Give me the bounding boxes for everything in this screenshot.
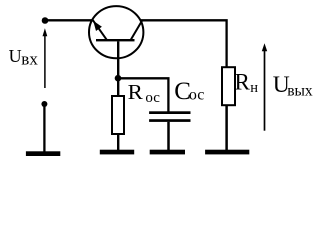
svg-text:вых: вых	[287, 82, 313, 99]
resistor Roc	[112, 96, 124, 134]
label Roc	[128, 80, 161, 106]
ground Rn	[205, 150, 249, 155]
wire Roc to ground	[117, 134, 119, 151]
wire input top-left	[45, 19, 92, 21]
label Coc	[174, 78, 204, 105]
wire junction to capacitor	[118, 78, 168, 111]
resistor Rn load	[222, 67, 235, 105]
wire junction to resistor Roc	[117, 78, 119, 95]
node input lower dot	[41, 101, 47, 107]
arrow Uvyx output voltage	[262, 43, 267, 131]
svg-text:R: R	[128, 80, 143, 104]
node input top dot	[42, 17, 49, 24]
svg-text:ос: ос	[145, 90, 160, 106]
ground input	[26, 151, 60, 156]
label Uvyx	[273, 72, 313, 99]
svg-text:ос: ос	[189, 86, 205, 103]
svg-text:R: R	[235, 69, 251, 94]
svg-text:н: н	[250, 80, 258, 96]
wire Coc to ground	[167, 122, 170, 151]
label Uvx	[9, 46, 39, 69]
transistor VT1	[89, 6, 143, 78]
arrow Uvx input voltage	[43, 28, 48, 88]
svg-text:вх: вх	[21, 50, 38, 69]
wire collector to load	[140, 20, 226, 66]
label Rn	[235, 69, 259, 96]
wire Rn to ground	[225, 105, 228, 151]
wire input ground lead	[43, 104, 45, 152]
ground Roc	[100, 150, 134, 155]
node junction dot	[115, 75, 122, 82]
ground Coc	[150, 150, 185, 155]
capacitor Coc	[149, 111, 190, 122]
svg-text:U: U	[9, 46, 22, 66]
